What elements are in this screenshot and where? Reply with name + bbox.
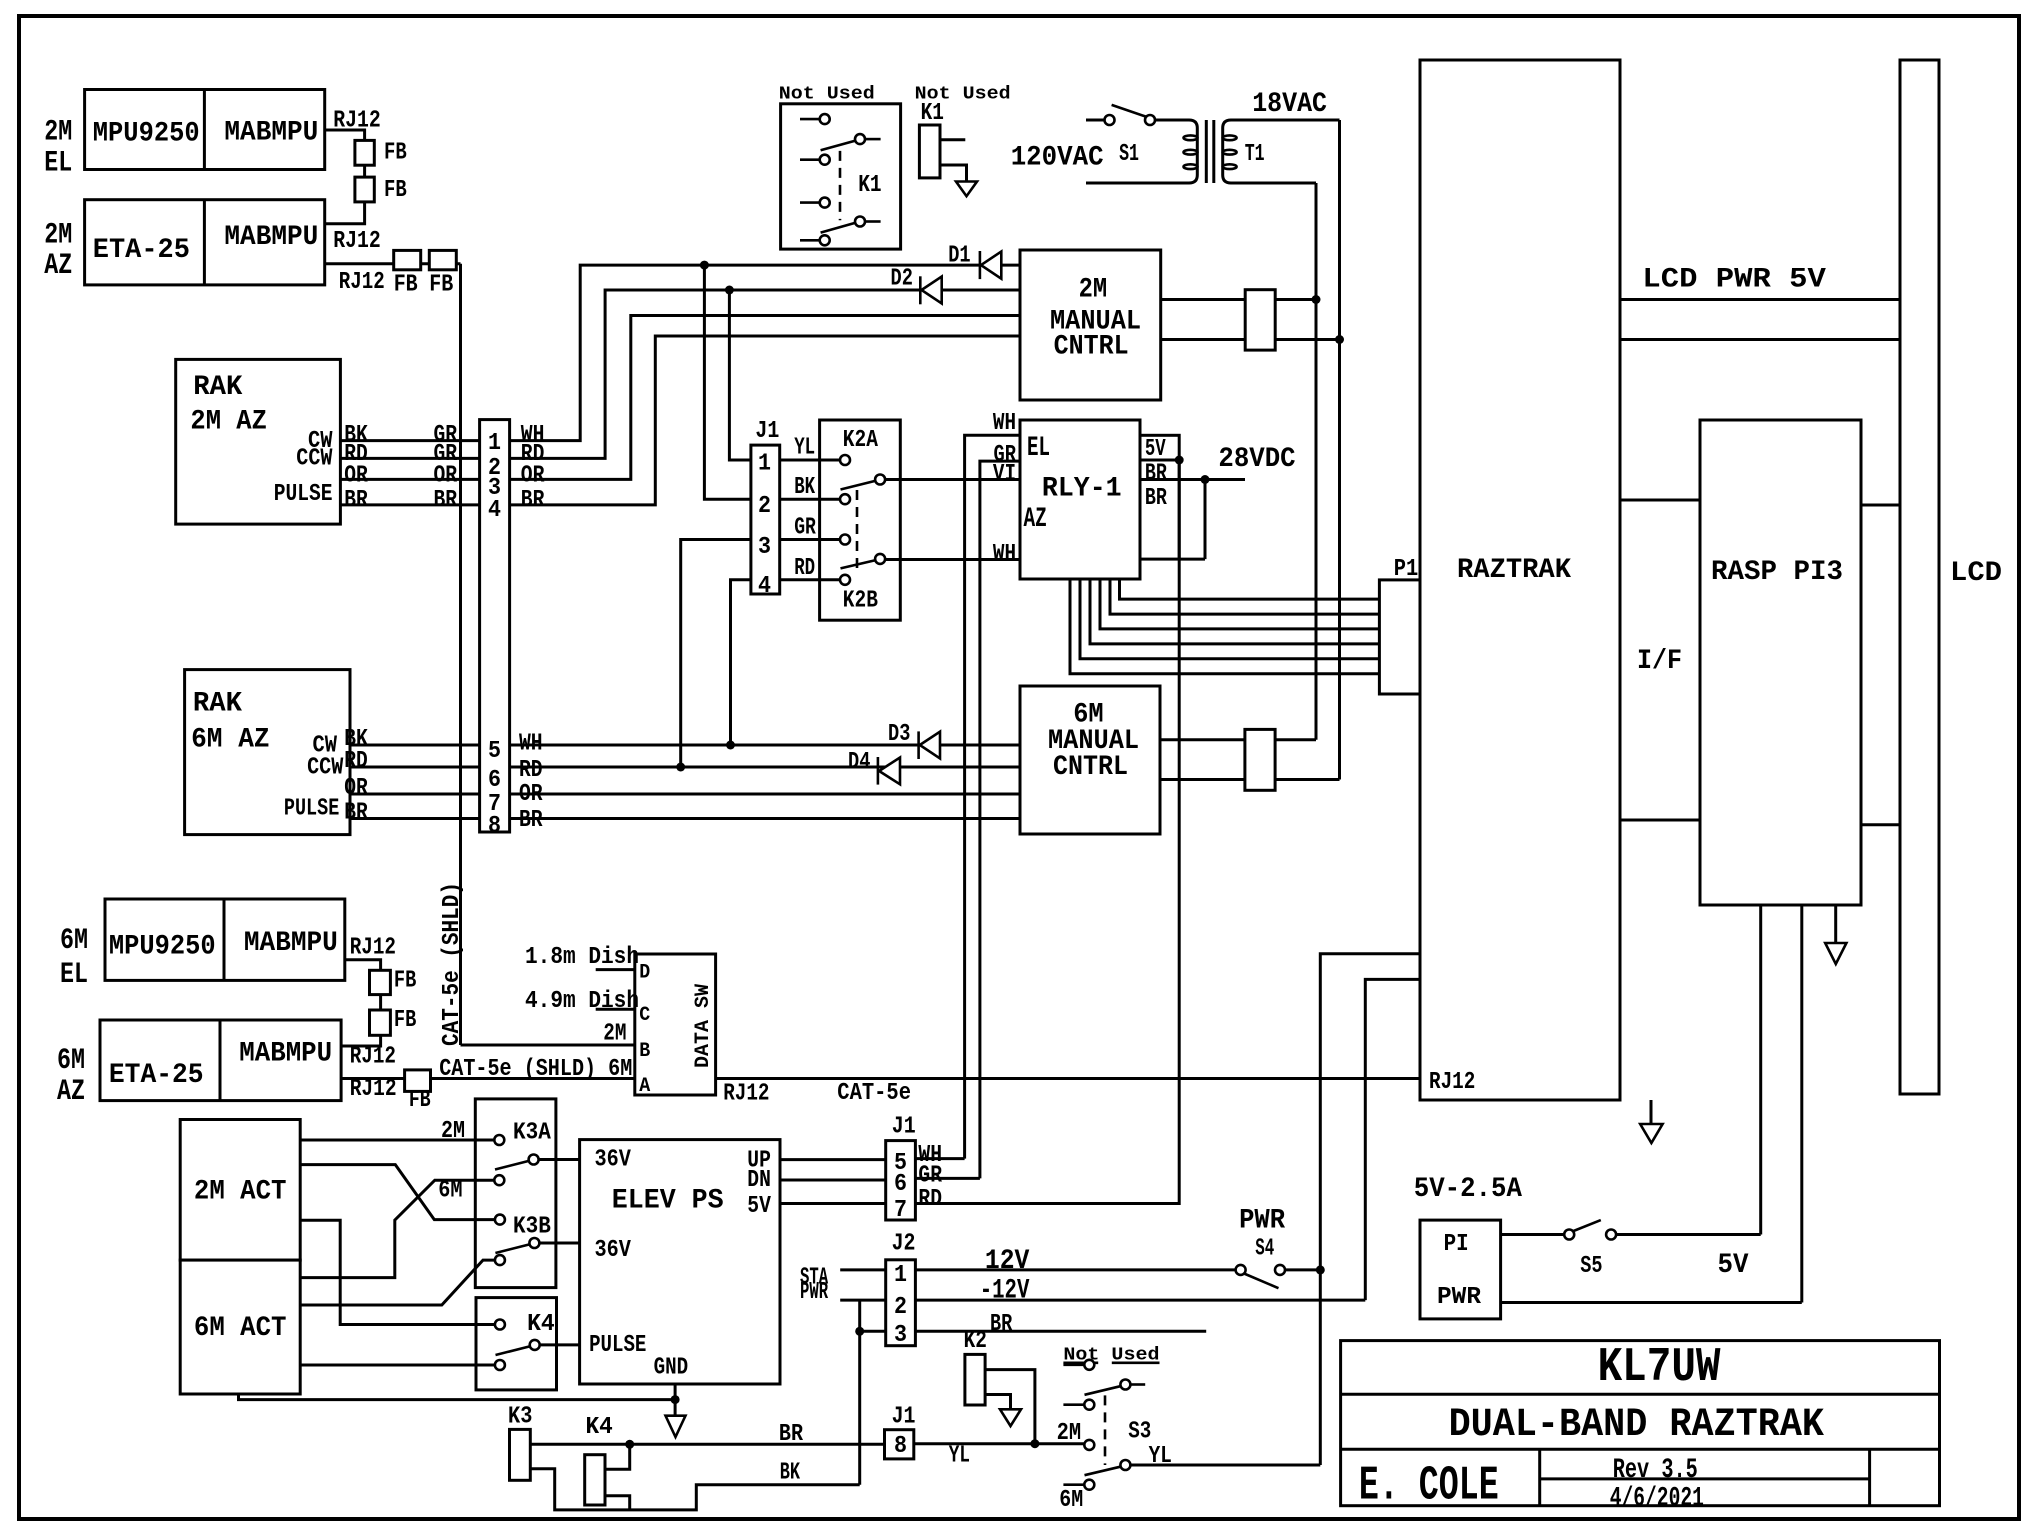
svg-text:AZ: AZ	[44, 249, 72, 283]
wire K4 common to ELEV PULSE	[540, 1343, 579, 1346]
block 2M ACT	[180, 1120, 300, 1261]
ferrite on 6M CNTRL outputs	[1245, 729, 1275, 790]
svg-text:MABMPU: MABMPU	[239, 1039, 332, 1070]
junction dot 2M CNTRL bottom right	[1335, 335, 1344, 344]
block PI PWR	[1420, 1220, 1501, 1319]
transformer T1 secondary	[1223, 120, 1340, 183]
wire 6M ACT row C to K4 c2	[300, 1364, 494, 1367]
svg-text:J2: J2	[892, 1231, 916, 1258]
K4 contacts	[496, 1347, 530, 1356]
svg-text:RJ12: RJ12	[350, 934, 396, 961]
K2A contacts	[841, 481, 875, 490]
svg-text:K2: K2	[964, 1328, 987, 1355]
ground (K1 coil)	[956, 182, 977, 197]
dashed link K1	[839, 151, 842, 220]
wire DATA SW C stub	[596, 1008, 635, 1011]
svg-text:PULSE: PULSE	[274, 481, 333, 508]
svg-text:7: 7	[894, 1197, 907, 1224]
block MPU9250 / MABMPU (2M EL)	[85, 90, 325, 170]
svg-text:D4: D4	[848, 749, 870, 776]
block 6M ACT	[180, 1260, 300, 1394]
svg-text:FB: FB	[429, 271, 453, 298]
wire I/F link top	[1620, 499, 1700, 502]
svg-text:RD: RD	[519, 757, 543, 784]
svg-text:BR: BR	[519, 807, 543, 834]
junction dot J2-3	[855, 1327, 864, 1336]
wire ETA-25 2M AZ RJ12 to CAT-5e	[325, 262, 461, 265]
svg-text:AZ: AZ	[1024, 504, 1047, 535]
wire vertical 18VAC down to 6M CNTRL	[1338, 120, 1341, 780]
svg-text:4/6/2021: 4/6/2021	[1610, 1484, 1704, 1515]
wire 2M ACT row A to K3A c1	[300, 1139, 494, 1142]
wire LCD PWR bus top	[1620, 298, 1900, 301]
wire RAK6M CW WH row	[350, 744, 480, 747]
svg-text:CAT-5e (SHLD) 6M: CAT-5e (SHLD) 6M	[439, 1056, 632, 1083]
wire RASP PI3 to LCD top	[1861, 504, 1900, 507]
ground (RAZTRAK)	[1650, 1100, 1653, 1124]
junction dot WH/J1-2	[700, 261, 709, 270]
K2B contacts	[841, 560, 875, 568]
wire 6M ACT row B diag to K3B c2	[300, 1260, 494, 1305]
wire BR 28VDC row	[1140, 478, 1245, 481]
wire ELEV DN to J1-6	[780, 1179, 886, 1182]
svg-text:2M AZ: 2M AZ	[190, 406, 267, 437]
svg-text:K3: K3	[508, 1404, 532, 1431]
svg-text:K4: K4	[586, 1414, 613, 1441]
svg-text:CAT-5e: CAT-5e	[837, 1080, 911, 1107]
K3A contacts	[495, 1161, 528, 1170]
svg-text:PWR: PWR	[800, 1279, 828, 1306]
svg-text:BK: BK	[780, 1460, 801, 1487]
svg-text:BR: BR	[344, 487, 368, 514]
junction dot 2M CNTRL top right	[1312, 295, 1321, 304]
svg-text:FB: FB	[384, 140, 407, 167]
wire 6M EL RJ12 to FB chain	[341, 960, 381, 1046]
svg-text:EL: EL	[1027, 433, 1050, 464]
diode D2	[919, 276, 922, 304]
svg-text:RJ12: RJ12	[1429, 1069, 1475, 1096]
block ETA-25 / MABMPU (6M AZ)	[100, 1020, 341, 1101]
svg-text:6M: 6M	[60, 924, 88, 958]
svg-text:D3: D3	[888, 721, 910, 748]
RLY-1 ribbon wires to P1	[1070, 579, 1379, 674]
svg-text:K4: K4	[527, 1311, 555, 1338]
switch S3 upper pole (not used)	[1063, 1364, 1083, 1367]
svg-text:BR: BR	[1145, 461, 1167, 488]
wire -12V to RAZTRAK riser	[915, 1299, 1365, 1302]
svg-text:CCW: CCW	[307, 754, 344, 781]
junction dot RD/J1-1	[725, 286, 734, 295]
switch S3 lower pole	[1084, 1440, 1094, 1450]
svg-text:FB: FB	[384, 177, 407, 204]
svg-text:C: C	[639, 1004, 650, 1027]
wire J1-5 WH to riser	[915, 1157, 964, 1160]
svg-text:D: D	[639, 962, 650, 985]
wire ACT gnd stub	[239, 1394, 676, 1400]
svg-text:K2B: K2B	[843, 588, 878, 615]
svg-text:ETA-25: ETA-25	[109, 1060, 204, 1091]
ground (RASP PI3)	[1834, 905, 1837, 943]
wire 2M ACT row B diag to K3B c1	[300, 1165, 494, 1220]
junction dot K4 top	[625, 1440, 634, 1449]
svg-text:2M: 2M	[44, 218, 72, 252]
wire K3A common to ELEV 36V	[539, 1158, 580, 1161]
svg-text:CNTRL: CNTRL	[1054, 332, 1129, 363]
svg-text:OR: OR	[519, 781, 543, 808]
svg-text:12V: 12V	[985, 1246, 1030, 1277]
svg-text:1.8m Dish: 1.8m Dish	[525, 944, 639, 971]
svg-text:GR: GR	[794, 515, 816, 542]
svg-text:4: 4	[758, 573, 771, 600]
ferrite bead FB (2M EL lower)	[355, 177, 374, 202]
svg-text:120VAC: 120VAC	[1011, 143, 1104, 174]
wire I/F link bottom	[1620, 819, 1700, 822]
svg-text:ETA-25: ETA-25	[93, 235, 190, 266]
wire RAK2M CCW RD row	[340, 457, 479, 460]
junction dot S4	[1316, 1265, 1325, 1274]
svg-text:CNTRL: CNTRL	[1053, 752, 1128, 783]
wire K3B common to ELEV 36V(2)	[540, 1242, 580, 1245]
svg-text:6: 6	[894, 1171, 907, 1198]
block DATA SW	[635, 954, 716, 1095]
block ETA-25 / MABMPU (2M AZ)	[85, 200, 325, 285]
wire RAK6M CCW RD row	[350, 766, 480, 769]
wire RAK6M PULSE BR row	[350, 817, 480, 820]
svg-text:2M: 2M	[1079, 274, 1108, 305]
relay box K4	[476, 1298, 557, 1390]
svg-text:A: A	[639, 1075, 650, 1098]
svg-text:CAT-5e (SHLD): CAT-5e (SHLD)	[439, 882, 466, 1046]
svg-text:RJ12: RJ12	[333, 228, 381, 255]
svg-text:FB: FB	[409, 1087, 431, 1114]
wire DATA SW D stub	[596, 968, 635, 971]
wire RASP PI3 to LCD bottom	[1861, 823, 1900, 826]
svg-text:RJ12: RJ12	[333, 107, 381, 134]
svg-text:RAK: RAK	[193, 372, 242, 403]
svg-text:BR: BR	[344, 800, 368, 827]
svg-text:K3B: K3B	[513, 1214, 551, 1241]
svg-text:DUAL-BAND RAZTRAK: DUAL-BAND RAZTRAK	[1449, 1403, 1824, 1448]
wire RASP PI3 5V drop	[1759, 905, 1762, 1235]
wire GR from ELEV J1-6 up to RLY-1	[980, 461, 1020, 1178]
wire 6M ACT row A diag to K3A c2	[300, 1180, 494, 1277]
wire ELEV GND stub	[674, 1384, 677, 1416]
wire J1 pin1 drop	[729, 290, 751, 460]
wire J1 pin3 to 6M RD row	[681, 540, 751, 768]
block MPU9250 / MABMPU (6M EL)	[105, 899, 345, 980]
wire J1-6 GR to riser	[915, 1177, 980, 1180]
svg-text:D2: D2	[891, 266, 913, 293]
wire J1 pin4 to 6M WH row	[731, 580, 751, 745]
svg-text:FB: FB	[394, 968, 416, 995]
svg-text:CCW: CCW	[296, 446, 333, 473]
svg-text:RD: RD	[918, 1186, 942, 1213]
svg-text:18VAC: 18VAC	[1252, 89, 1327, 120]
block 2M MANUAL CNTRL	[1020, 250, 1161, 400]
ferrite bead FB (6M EL lower)	[370, 1010, 391, 1035]
svg-text:MABMPU: MABMPU	[224, 117, 318, 148]
relay contact box K1	[781, 104, 901, 249]
svg-text:D1: D1	[948, 242, 970, 269]
svg-text:PULSE: PULSE	[589, 1332, 646, 1359]
svg-text:BR: BR	[434, 487, 458, 514]
svg-text:1: 1	[758, 450, 771, 477]
switch S1	[1105, 115, 1115, 125]
svg-text:3: 3	[758, 534, 771, 561]
relay RLY-1	[1020, 420, 1140, 579]
svg-text:8: 8	[488, 813, 501, 840]
svg-text:YL: YL	[1149, 1443, 1172, 1470]
svg-text:E. COLE: E. COLE	[1359, 1460, 1499, 1514]
wire ELEV 5V to J1-7	[780, 1202, 886, 1205]
ground (K2)	[1000, 1409, 1021, 1426]
svg-text:RD: RD	[794, 555, 815, 582]
svg-text:EL: EL	[44, 147, 72, 181]
svg-text:T1: T1	[1245, 141, 1265, 168]
ground (ELEV PS)	[666, 1416, 686, 1437]
wire 6M rows right of connector into 6M CNTRL	[510, 744, 1020, 747]
wire K2B common WH to RLY-1	[886, 558, 1020, 561]
svg-text:YL: YL	[794, 435, 815, 462]
svg-text:PI: PI	[1444, 1231, 1469, 1258]
wire CAT-5e to DATA SW B	[461, 1044, 635, 1047]
wire 120VAC top	[1086, 119, 1104, 122]
ferrite bead FB (2M EL upper)	[355, 140, 374, 165]
svg-text:BR: BR	[990, 1311, 1013, 1338]
svg-text:2M: 2M	[603, 1020, 626, 1047]
svg-text:2M: 2M	[441, 1118, 465, 1145]
transformer T1 core	[1205, 120, 1208, 183]
wire RD from 5V dot down to ELEV J1-7	[915, 460, 1179, 1204]
svg-text:S4: S4	[1255, 1236, 1274, 1263]
wire ELEV UP to J1-5	[780, 1158, 886, 1161]
transformer T1 primary	[1086, 120, 1197, 183]
svg-text:2: 2	[758, 493, 771, 520]
svg-text:RJ12: RJ12	[350, 1044, 396, 1071]
svg-text:ELEV PS: ELEV PS	[612, 1185, 724, 1216]
wire PI PWR bottom to RASP	[1501, 1301, 1802, 1304]
svg-text:RAK: RAK	[193, 689, 242, 720]
svg-text:Not Used: Not Used	[779, 85, 875, 105]
wire riser to RAZTRAK (PWR net)	[1320, 954, 1419, 1465]
svg-text:K2A: K2A	[843, 427, 879, 454]
ferrite bead FB on CAT-5e 6M	[405, 1070, 431, 1092]
ferrite bead FB (6M EL upper)	[370, 970, 391, 994]
svg-text:I/F: I/F	[1637, 646, 1682, 677]
wire S3 common YL out	[1131, 1464, 1320, 1467]
junction dot GND	[671, 1395, 680, 1404]
wire J1 pin2 drop	[704, 265, 751, 499]
svg-text:WH: WH	[993, 541, 1016, 568]
block LCD	[1900, 60, 1939, 1094]
svg-text:LCD: LCD	[1950, 558, 2002, 589]
wire RAK6M OR row	[350, 793, 480, 796]
svg-text:MPU9250: MPU9250	[93, 118, 200, 149]
wire BR row to J1-8	[530, 1443, 884, 1446]
wire J2-3 left stub	[860, 1330, 886, 1333]
svg-text:J1: J1	[892, 1404, 916, 1431]
wire LCD PWR bus bottom	[1620, 338, 1900, 341]
svg-text:GND: GND	[654, 1355, 689, 1382]
svg-text:BR: BR	[521, 487, 545, 514]
svg-text:MABMPU: MABMPU	[224, 222, 318, 253]
svg-text:1: 1	[894, 1262, 907, 1289]
svg-text:S3: S3	[1128, 1419, 1151, 1446]
wire PI PWR to S5	[1501, 1233, 1564, 1236]
svg-text:BK: BK	[794, 474, 815, 501]
wire 2M CNTRL right rows	[1161, 298, 1316, 301]
svg-text:RAZTRAK: RAZTRAK	[1457, 555, 1571, 586]
block RAK 2M AZ	[176, 359, 341, 524]
switch S4	[1236, 1265, 1246, 1275]
svg-text:2M: 2M	[1057, 1420, 1082, 1447]
svg-text:OR: OR	[344, 462, 368, 489]
wire RAK2M OR row	[340, 478, 479, 481]
wire J2-2 left stub with drop	[840, 1299, 886, 1302]
svg-text:DN: DN	[747, 1167, 771, 1194]
K3B contacts	[495, 1245, 529, 1254]
svg-text:OR: OR	[434, 462, 458, 489]
svg-text:RJ12: RJ12	[723, 1081, 769, 1108]
junction dot YL/K2	[1030, 1439, 1039, 1448]
svg-text:RASP PI3: RASP PI3	[1711, 557, 1843, 588]
svg-text:RJ12: RJ12	[339, 269, 385, 296]
svg-text:1: 1	[488, 430, 501, 457]
svg-text:RJ12: RJ12	[350, 1076, 397, 1103]
svg-text:K3A: K3A	[513, 1119, 551, 1146]
svg-text:AZ: AZ	[57, 1075, 85, 1109]
block ELEV PS	[580, 1140, 780, 1384]
svg-text:K1: K1	[858, 172, 881, 199]
diode D1	[979, 251, 982, 279]
wire 6M CNTRL right rows	[1160, 738, 1316, 741]
wire J2-3 BR row	[915, 1330, 1206, 1333]
svg-text:3: 3	[894, 1322, 907, 1349]
relay contact box K2A/K2B	[820, 420, 901, 620]
svg-text:J1: J1	[892, 1114, 916, 1141]
svg-text:J1: J1	[755, 418, 779, 445]
switch S5	[1564, 1230, 1574, 1240]
svg-text:LCD PWR 5V: LCD PWR 5V	[1642, 265, 1826, 296]
svg-text:PWR: PWR	[1239, 1206, 1285, 1237]
svg-text:S5: S5	[1580, 1253, 1602, 1280]
svg-text:36V: 36V	[595, 1237, 632, 1264]
svg-text:4: 4	[488, 497, 501, 524]
diode D3	[917, 731, 920, 759]
svg-text:WH: WH	[519, 730, 543, 757]
wire row1 WH up-and-over to 2M CNTRL with D1	[510, 265, 1020, 441]
svg-text:BR: BR	[779, 1421, 804, 1448]
wire J2-1 left stub	[840, 1268, 886, 1271]
svg-text:36V: 36V	[595, 1147, 632, 1174]
svg-text:4.9m Dish: 4.9m Dish	[525, 988, 639, 1015]
svg-text:5V: 5V	[1718, 1250, 1749, 1281]
svg-text:B: B	[639, 1040, 650, 1063]
wire 5V row	[1140, 459, 1179, 462]
svg-text:2: 2	[894, 1294, 907, 1321]
svg-text:6M: 6M	[438, 1178, 462, 1205]
svg-text:FB: FB	[394, 271, 418, 298]
wire CAT-5e (SHLD) 6M long run to RAZTRAK	[341, 1077, 1419, 1080]
svg-text:6: 6	[488, 767, 501, 794]
svg-text:FB: FB	[394, 1007, 416, 1034]
ferrite bead FB (2M AZ left)	[394, 250, 421, 269]
svg-text:OR: OR	[344, 775, 368, 802]
svg-text:5V: 5V	[747, 1193, 771, 1220]
block 6M MANUAL CNTRL	[1020, 686, 1160, 834]
wire 2M ACT row C to K4 c1	[300, 1220, 494, 1324]
wire CAT-5e (SHLD) vertical 2M	[459, 264, 462, 1045]
svg-text:RLY-1: RLY-1	[1042, 473, 1122, 504]
svg-text:2M ACT: 2M ACT	[194, 1176, 287, 1207]
svg-text:GR: GR	[994, 442, 1017, 469]
wire WH from ELEV J1-5 up to RLY-1	[965, 435, 1020, 1158]
wire K2A common VI to RLY-1	[886, 478, 1020, 481]
svg-text:28VDC: 28VDC	[1218, 444, 1295, 475]
wire row3 OR up-and-over	[510, 316, 1020, 480]
RLY-1 right column	[1140, 435, 1179, 559]
wire riser to RAZTRAK (-12V net)	[1365, 979, 1419, 1300]
title block	[1341, 1341, 1940, 1506]
wire RAK2M CW BK row	[340, 439, 479, 442]
relay box K3A/K3B	[475, 1099, 556, 1288]
wire RASP PI3 PWR drop	[1800, 905, 1803, 1303]
svg-text:WH: WH	[993, 410, 1016, 437]
block RAK 6M AZ	[185, 670, 350, 835]
wire RAK2M PULSE BR row	[340, 503, 479, 506]
ferrite on 2M CNTRL outputs	[1245, 290, 1275, 350]
svg-text:KL7UW: KL7UW	[1598, 1341, 1721, 1395]
connector strip pins 1-8	[480, 420, 510, 832]
wire row4 BR up-and-over	[510, 336, 1020, 505]
svg-text:-12V: -12V	[980, 1276, 1030, 1307]
svg-text:8: 8	[894, 1433, 907, 1460]
svg-text:RD: RD	[344, 748, 368, 775]
wire J1 pin rows to K2 contacts	[780, 459, 840, 462]
wire J1-8 YL to S3	[914, 1442, 1084, 1445]
svg-text:S1: S1	[1119, 141, 1139, 168]
svg-text:5V-2.5A: 5V-2.5A	[1414, 1174, 1522, 1205]
svg-text:6M AZ: 6M AZ	[191, 724, 270, 755]
svg-text:5: 5	[488, 738, 501, 765]
svg-text:PWR: PWR	[1437, 1284, 1482, 1311]
svg-text:6M ACT: 6M ACT	[194, 1313, 287, 1344]
svg-text:DATA SW: DATA SW	[692, 984, 715, 1068]
svg-text:EL: EL	[60, 958, 88, 992]
dashed link K2	[856, 490, 859, 570]
wire vertical from T1 secondary bottom down to 6M CNTRL	[1315, 183, 1318, 740]
block RASP PI3	[1700, 420, 1861, 905]
svg-text:OR: OR	[521, 462, 545, 489]
svg-text:Rev 3.5: Rev 3.5	[1613, 1455, 1698, 1486]
svg-text:6M: 6M	[57, 1044, 85, 1078]
ferrite bead FB (2M AZ right)	[429, 250, 456, 269]
svg-text:MPU9250: MPU9250	[109, 931, 216, 962]
svg-text:2M: 2M	[44, 115, 72, 149]
dashed link S3	[1104, 1395, 1107, 1465]
svg-text:MABMPU: MABMPU	[244, 928, 338, 959]
svg-text:6M: 6M	[1059, 1487, 1083, 1514]
wire row2 RD up-and-over with D2	[510, 290, 1020, 458]
svg-text:PULSE: PULSE	[284, 795, 339, 822]
svg-text:BR: BR	[1145, 485, 1167, 512]
junction dot J1-3/6M RD	[676, 763, 685, 772]
wire MABMPU 2M EL RJ12 to FB chain	[325, 130, 365, 224]
block RAZTRAK	[1420, 60, 1620, 1100]
junction dot J1-4/6M WH	[726, 741, 735, 750]
wire 12V to S4	[915, 1268, 1235, 1271]
switch S3 6M contact	[1063, 1483, 1083, 1486]
